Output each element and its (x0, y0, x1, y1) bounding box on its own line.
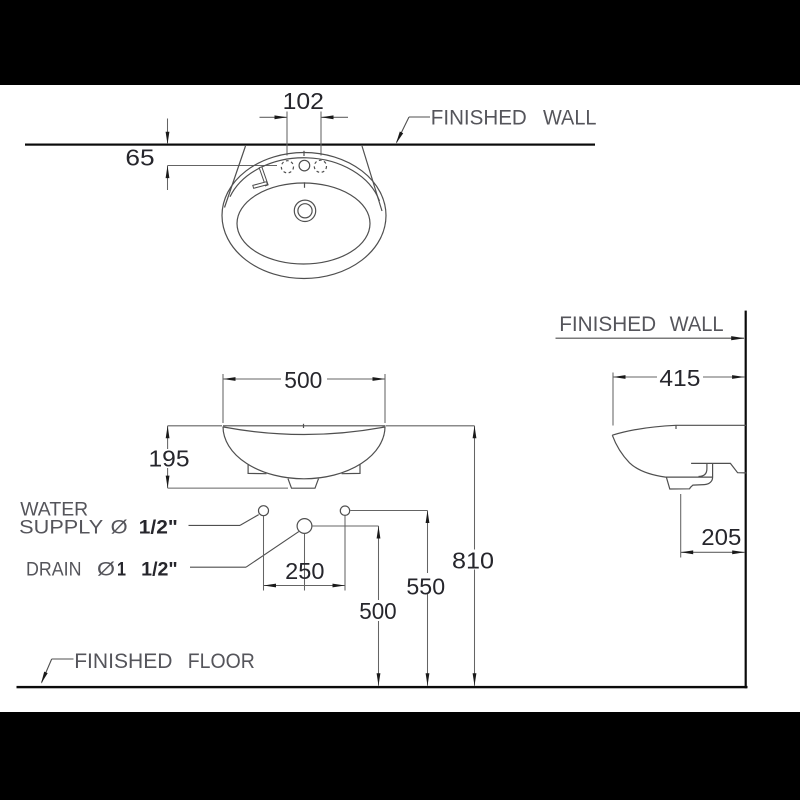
svg-text:FINISHED: FINISHED (74, 649, 172, 673)
svg-text:FINISHED: FINISHED (431, 106, 527, 130)
svg-text:195: 195 (149, 446, 190, 472)
svg-text:1/2": 1/2" (141, 559, 178, 581)
svg-text:810: 810 (452, 548, 494, 574)
svg-text:WALL: WALL (670, 312, 724, 336)
svg-text:FINISHED: FINISHED (559, 312, 656, 336)
svg-text:1: 1 (117, 559, 126, 581)
svg-text:102: 102 (283, 88, 324, 114)
svg-text:Ø: Ø (111, 517, 128, 539)
svg-text:WALL: WALL (543, 106, 597, 130)
svg-text:Ø: Ø (97, 559, 115, 581)
svg-text:500: 500 (284, 367, 322, 393)
svg-text:500: 500 (359, 598, 397, 624)
svg-text:550: 550 (406, 573, 445, 599)
svg-text:65: 65 (125, 145, 154, 171)
svg-text:205: 205 (701, 524, 741, 550)
svg-text:415: 415 (659, 365, 700, 391)
svg-text:FLOOR: FLOOR (188, 649, 255, 673)
svg-text:SUPPLY: SUPPLY (19, 517, 103, 539)
svg-text:DRAIN: DRAIN (26, 559, 82, 581)
svg-text:250: 250 (285, 558, 324, 584)
svg-text:1/2": 1/2" (139, 517, 178, 539)
